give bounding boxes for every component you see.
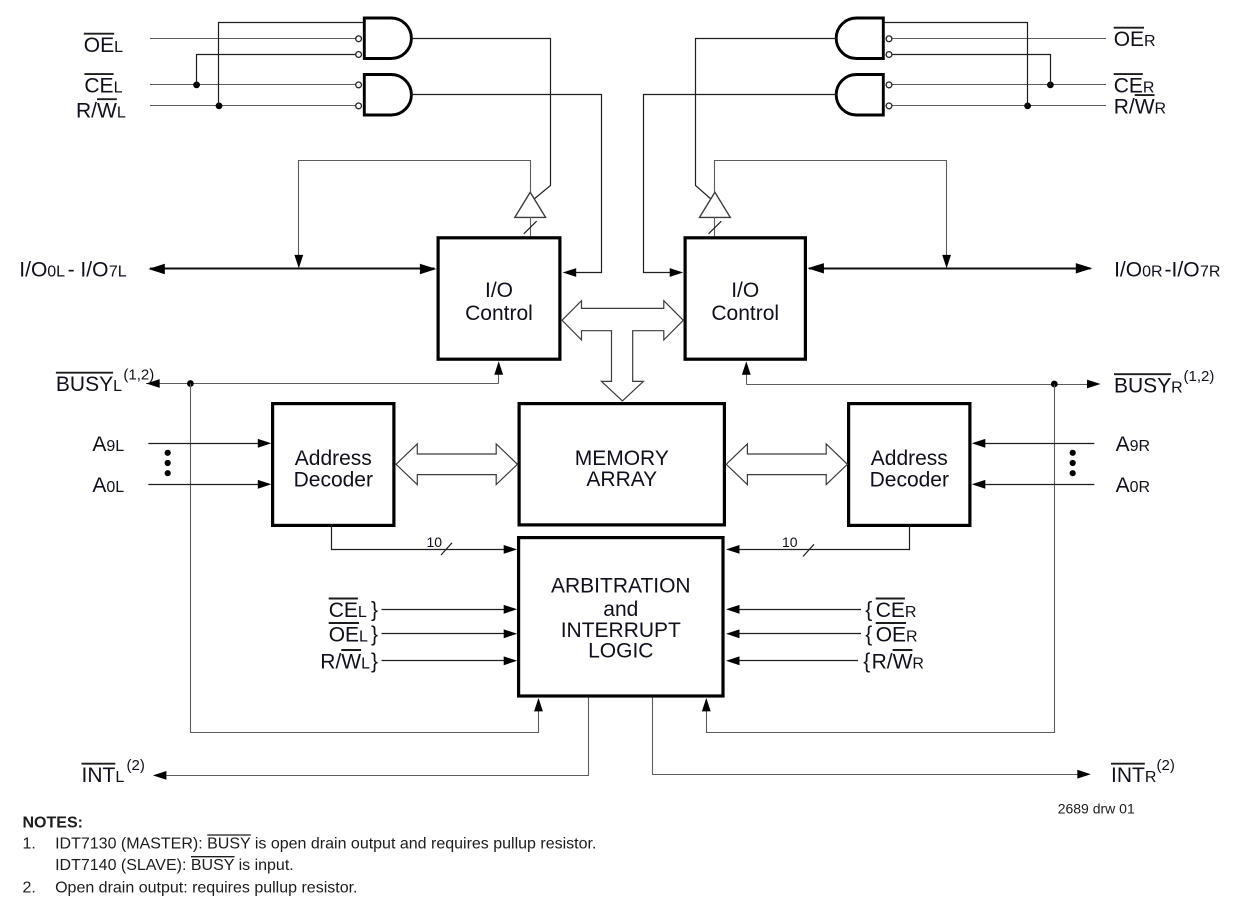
junction dot on BUSYR: [1051, 381, 1058, 388]
junction dot on R/WL: [216, 103, 223, 110]
svg-text:CE: CE: [876, 599, 905, 622]
svg-text:{: {: [865, 598, 872, 621]
wire CER branch to gate U3: [892, 55, 1051, 85]
svg-text:(1,2): (1,2): [1184, 368, 1215, 385]
wire CER to gate U4: [892, 84, 1106, 86]
svg-text:A: A: [1116, 474, 1130, 497]
note 2: [23, 880, 358, 897]
wire buffer right output: [714, 217, 716, 236]
junction dot on BUSYL: [187, 380, 194, 387]
AND gate U3 (right OE gate): [836, 18, 892, 59]
label I/O0L-I/O7L: [19, 259, 127, 282]
wire CEL branch to gate U1: [197, 55, 356, 85]
svg-text:10: 10: [427, 534, 443, 550]
svg-text:10: 10: [782, 534, 798, 550]
svg-text:2689 drw 01: 2689 drw 01: [1058, 801, 1135, 817]
svg-text:OE: OE: [329, 623, 359, 646]
label CER at arbitration: [876, 599, 917, 622]
wire A0L: [148, 480, 271, 489]
10-bit bus decoder right to arbitration: [726, 527, 910, 554]
svg-text:{: {: [865, 623, 872, 646]
slash on buffer right output: [709, 221, 722, 234]
svg-text:0L: 0L: [106, 479, 124, 496]
wire R/WR to arbitration: [726, 656, 858, 665]
svg-text:(1,2): (1,2): [123, 367, 154, 384]
svg-text:R/W: R/W: [320, 650, 361, 673]
AND gate U2 (left CE gate): [356, 75, 412, 116]
svg-text:L: L: [113, 378, 122, 395]
svg-text:INT: INT: [82, 764, 116, 787]
wire U4 output to I/O control right: [644, 95, 837, 277]
svg-text:-I/O: -I/O: [1165, 259, 1200, 282]
I/O bus right: [807, 263, 1092, 273]
svg-text:L: L: [114, 39, 123, 56]
wire buffer left output: [530, 217, 532, 236]
svg-text:Control: Control: [711, 302, 779, 325]
svg-text:OE: OE: [84, 34, 114, 57]
svg-text:L: L: [358, 604, 367, 621]
wire CER to arbitration: [726, 605, 861, 614]
wire buffer left input from I/O bus: [294, 161, 530, 269]
svg-text:CE: CE: [1114, 74, 1143, 97]
svg-text:ARBITRATION: ARBITRATION: [551, 575, 691, 598]
I/O control box left: [438, 238, 560, 359]
wire U2 output to I/O control left: [412, 95, 602, 277]
svg-text:I/O: I/O: [731, 279, 759, 302]
AND gate U4 (right CE gate): [836, 75, 892, 116]
label I/O0R-I/O7R: [1114, 259, 1220, 282]
svg-text:(2): (2): [127, 757, 145, 774]
svg-text:MEMORY: MEMORY: [575, 447, 669, 470]
label CER: [1114, 74, 1155, 97]
label A9R: [1116, 433, 1150, 456]
svg-text:I/O: I/O: [1114, 259, 1142, 282]
address decoder box right: [849, 404, 970, 526]
svg-text:R: R: [905, 604, 917, 621]
wire A9L: [148, 439, 271, 448]
svg-text:- I/O: - I/O: [68, 259, 109, 282]
AND gate U1 (left OE gate): [356, 18, 412, 59]
bus width slash left: [441, 543, 452, 555]
svg-text:L: L: [117, 105, 126, 122]
wire buffer right input from I/O bus: [715, 161, 952, 269]
wire OEL to arbitration: [382, 629, 518, 638]
svg-text:A: A: [92, 433, 106, 456]
svg-text:Decoder: Decoder: [870, 469, 949, 492]
svg-text:and: and: [603, 598, 638, 621]
I/O control box right: [685, 238, 805, 359]
wire A9R: [972, 439, 1095, 448]
INT left wire: [153, 698, 589, 780]
svg-text:L: L: [361, 655, 370, 672]
wire OER to arbitration: [726, 629, 861, 638]
wire A0R: [972, 480, 1095, 489]
label BUSYR(1,2): [1114, 368, 1214, 398]
label INTL(2): [82, 757, 145, 787]
wire U3 output to buffer enable: [696, 39, 837, 200]
ellipsis dots right: [1070, 450, 1076, 477]
BUSY right branch to arbitration: [702, 385, 1055, 733]
svg-text:CE: CE: [84, 74, 113, 97]
label OEL: [84, 34, 123, 57]
svg-text:OE: OE: [1114, 28, 1144, 51]
svg-text:L: L: [359, 628, 368, 645]
junction dot on CEL: [193, 82, 200, 89]
svg-text:7R: 7R: [1200, 264, 1220, 281]
wire CEL to gate U2: [150, 84, 356, 86]
10-bit bus decoder left to arbitration: [332, 527, 518, 554]
BUSY right net: [742, 361, 1101, 388]
note 1 line 2: [55, 857, 294, 875]
svg-text:0L: 0L: [47, 264, 65, 281]
junction dot on CER: [1047, 82, 1054, 89]
svg-text:(2): (2): [1157, 757, 1175, 774]
svg-text:Address: Address: [295, 447, 372, 470]
svg-text:BUSY: BUSY: [1114, 375, 1171, 398]
svg-text:}: }: [371, 623, 378, 646]
svg-text:R: R: [906, 628, 918, 645]
label CEL at arbitration: [329, 599, 367, 622]
bidirectional arrow memory array to decoder right: [726, 444, 847, 485]
junction dot on R/WR: [1024, 103, 1031, 110]
label OEL at arbitration: [329, 623, 368, 646]
wire R/WL branch to gate U1: [219, 23, 365, 106]
svg-text:R: R: [1155, 100, 1167, 117]
svg-text:R/W: R/W: [872, 650, 913, 673]
label OER at arbitration: [876, 623, 918, 646]
svg-text:{: {: [863, 650, 870, 673]
wire OEL to gate U1: [150, 38, 356, 40]
tri-state buffer left: [515, 192, 546, 217]
svg-text:L: L: [115, 769, 124, 786]
svg-text:R/W: R/W: [76, 100, 117, 123]
label A9L: [92, 433, 124, 456]
svg-text:R: R: [912, 655, 924, 672]
svg-text:NOTES:: NOTES:: [23, 815, 83, 832]
svg-text:IDT7140 (SLAVE): BUSY is input: IDT7140 (SLAVE): BUSY is input.: [55, 857, 294, 874]
svg-text:9R: 9R: [1130, 438, 1150, 455]
BUSY left net: [146, 361, 503, 388]
svg-text:Address: Address: [871, 447, 948, 470]
svg-text:Control: Control: [465, 302, 533, 325]
wire R/WL to arbitration: [382, 656, 518, 665]
svg-text:ARRAY: ARRAY: [586, 468, 657, 491]
svg-text:L: L: [114, 79, 123, 96]
label A0L: [92, 474, 124, 497]
svg-text:9L: 9L: [106, 438, 124, 455]
svg-text:Open drain output: requires pu: Open drain output: requires pullup resis…: [55, 880, 357, 897]
svg-text:R: R: [1144, 33, 1156, 50]
wire U1 output to buffer enable: [412, 39, 551, 200]
label R/WL: [76, 99, 126, 122]
svg-text:OE: OE: [876, 623, 906, 646]
svg-text:IDT7130 (MASTER): BUSY is open: IDT7130 (MASTER): BUSY is open drain out…: [55, 836, 596, 853]
svg-text:0R: 0R: [1130, 479, 1150, 496]
svg-text:2.: 2.: [23, 880, 36, 897]
svg-text:R/W: R/W: [1114, 95, 1155, 118]
label R/WR: [1114, 95, 1166, 118]
label OER: [1114, 28, 1156, 51]
svg-text:0R: 0R: [1142, 264, 1162, 281]
svg-text:BUSY: BUSY: [56, 373, 113, 396]
note 1 line 1: [23, 835, 597, 853]
svg-text:R: R: [1145, 769, 1157, 786]
BUSY left branch to arbitration: [191, 384, 543, 733]
svg-text:A: A: [92, 474, 106, 497]
svg-text:}: }: [371, 598, 378, 621]
svg-text:INT: INT: [1111, 764, 1145, 787]
bidirectional data arrow between I/O controls and memory array: [562, 301, 683, 401]
label BUSYL(1,2): [56, 367, 154, 397]
svg-text:CE: CE: [329, 599, 358, 622]
arbitration and interrupt logic box: [519, 538, 723, 696]
memory array box: [519, 404, 724, 525]
address decoder box left: [273, 404, 394, 526]
ellipsis dots left: [165, 450, 171, 477]
svg-text:A: A: [1116, 433, 1130, 456]
svg-text:R: R: [1143, 79, 1155, 96]
svg-text:Decoder: Decoder: [294, 469, 373, 492]
slash on buffer left output: [524, 221, 537, 234]
I/O bus left: [148, 264, 436, 274]
svg-text:I/O: I/O: [19, 259, 47, 282]
INT right wire: [653, 698, 1091, 779]
tri-state buffer right: [700, 192, 731, 217]
label CEL: [84, 74, 122, 97]
svg-text:1.: 1.: [23, 836, 36, 853]
label A0R: [1116, 474, 1150, 497]
svg-text:LOGIC: LOGIC: [588, 639, 653, 662]
svg-text:}: }: [371, 650, 378, 673]
label R/WL at arbitration: [320, 650, 370, 673]
wire R/WR branch to gate U3: [884, 23, 1028, 106]
svg-text:I/O: I/O: [485, 279, 513, 302]
wire OER to gate U3: [892, 38, 1106, 40]
label R/WR at arbitration: [872, 650, 924, 673]
label INTR(2): [1111, 757, 1175, 787]
bidirectional arrow decoder left to memory array: [396, 444, 517, 485]
wire CEL to arbitration: [382, 605, 518, 614]
bus width slash right: [803, 544, 814, 556]
wire R/WL to gate U2: [150, 105, 356, 107]
svg-text:7L: 7L: [109, 264, 127, 281]
svg-text:R: R: [1171, 380, 1183, 397]
wire R/WR to gate U4: [892, 105, 1106, 107]
